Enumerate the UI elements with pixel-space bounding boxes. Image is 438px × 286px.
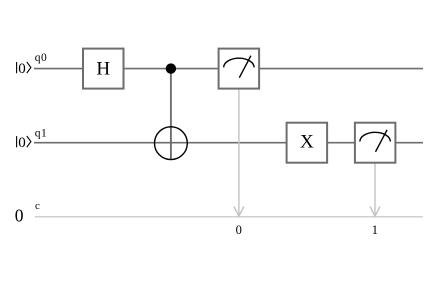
wire q0 xyxy=(34,68,423,70)
wire: measure arrow 1 (q0 -> c bit 0) xyxy=(234,89,244,216)
svg-text:0: 0 xyxy=(15,205,24,225)
gate H (on q0) xyxy=(83,49,124,89)
gate measure M2 (on q1) xyxy=(355,123,396,163)
svg-text:X: X xyxy=(300,131,314,152)
svg-text:0: 0 xyxy=(236,223,242,237)
node q0 label |0> xyxy=(17,61,31,77)
svg-text:c: c xyxy=(35,200,40,212)
node q1 label |0> xyxy=(17,135,31,151)
svg-text:0: 0 xyxy=(18,61,26,77)
control dot (CNOT control on q0) xyxy=(166,63,176,73)
CNOT target on q1 xyxy=(155,127,188,160)
svg-text:1: 1 xyxy=(372,223,378,237)
svg-text:0: 0 xyxy=(18,135,26,151)
svg-text:q1: q1 xyxy=(35,128,47,140)
wire c (classical) xyxy=(35,216,423,218)
gate X (on q1) xyxy=(287,123,328,163)
wire q1 xyxy=(34,142,423,144)
wire: measure arrow 2 (q1 -> c bit 1) xyxy=(370,163,380,216)
svg-text:H: H xyxy=(96,59,110,80)
gate measure M1 (on q0) xyxy=(219,49,260,89)
svg-text:q0: q0 xyxy=(35,52,47,64)
wire: CNOT vertical xyxy=(170,69,172,160)
